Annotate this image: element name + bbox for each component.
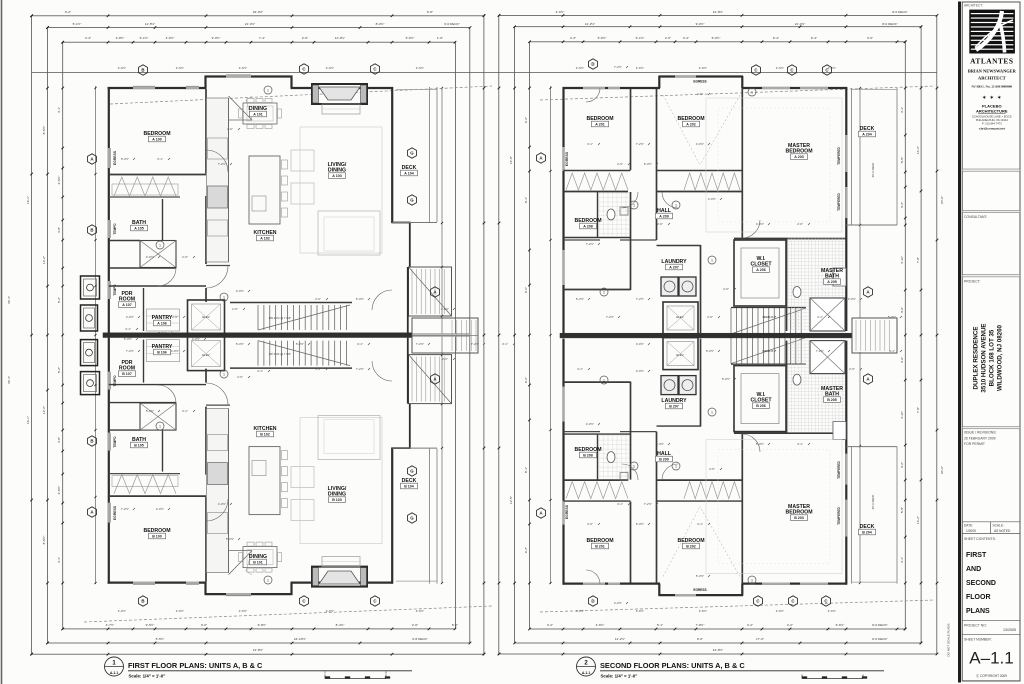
bath/pantry wall (109, 402, 176, 404)
p2 master bath tile (787, 238, 789, 330)
p2 exterior wall left (562, 87, 564, 333)
svg-text:B: B (90, 439, 93, 444)
svg-text:4'-1": 4'-1" (57, 107, 61, 113)
svg-text:TEMPERED: TEMPERED (837, 146, 841, 164)
stair corridor wall (230, 367, 352, 369)
svg-text:33'-4": 33'-4" (7, 376, 11, 384)
svg-text:3'-1": 3'-1" (697, 522, 703, 526)
svg-text:8'-5½": 8'-5½" (42, 536, 46, 545)
svg-text:26 FEBRUARY 2009: 26 FEBRUARY 2009 (964, 436, 996, 440)
svg-text:5'-1½": 5'-1½" (73, 22, 82, 26)
exterior wall right (391, 87, 393, 223)
party wall plan2 (560, 333, 852, 338)
svg-text:3'-1": 3'-1" (817, 315, 823, 319)
svg-text:3'-1": 3'-1" (577, 367, 583, 371)
svg-text:4'-7½": 4'-7½" (106, 623, 115, 627)
svg-text:A 202: A 202 (686, 123, 695, 127)
svg-text:2'-6": 2'-6" (237, 375, 243, 379)
kitchen counter (207, 98, 229, 262)
svg-text:SHEET NUMBER:: SHEET NUMBER: (964, 638, 992, 642)
svg-text:9'-2": 9'-2" (65, 10, 71, 14)
svg-text:CONSULTANT:: CONSULTANT: (964, 215, 987, 219)
svg-text:EGRESS: EGRESS (565, 151, 569, 166)
svg-text:TEMPD: TEMPD (113, 284, 117, 296)
title block border (958, 2, 961, 683)
p2 elevator (663, 338, 698, 370)
svg-text:5'-3½": 5'-3½" (696, 574, 704, 578)
svg-text:FIRST: FIRST (966, 552, 987, 559)
svg-text:11'-0½": 11'-0½" (335, 36, 345, 40)
plan2 dashed roof line bottom (540, 600, 935, 612)
svg-text:5'-3½": 5'-3½" (644, 162, 652, 166)
svg-text:5'-5½": 5'-5½" (156, 637, 165, 641)
svg-text:B 100: B 100 (152, 535, 162, 539)
svg-text:2'-6": 2'-6" (232, 307, 238, 311)
svg-text:AND: AND (966, 566, 981, 573)
svg-text:ELEV: ELEV (202, 353, 209, 357)
living rug (300, 418, 382, 544)
svg-text:2'-6": 2'-6" (412, 623, 418, 627)
p2 exterior wall right (845, 341, 847, 585)
svg-text:9'-0": 9'-0" (697, 637, 703, 641)
svg-text:4'-8": 4'-8" (57, 227, 61, 233)
svg-text:6'-8½": 6'-8½" (258, 623, 267, 627)
caption plan 2 (577, 657, 596, 676)
svg-text:3'-1": 3'-1" (763, 315, 769, 319)
exterior wall left (108, 87, 110, 333)
p2 windows left/right walls (562, 147, 564, 171)
svg-text:5'-6½": 5'-6½" (598, 36, 607, 40)
svg-text:4'-0½": 4'-0½" (171, 349, 179, 353)
svg-text:ATLANTES: ATLANTES (970, 57, 1013, 66)
svg-text:5'-6½": 5'-6½" (406, 36, 415, 40)
svg-text:6'-0 DECK": 6'-0 DECK" (444, 22, 460, 26)
svg-text:16'-1": 16'-1" (26, 416, 30, 424)
svg-text:FLOOR: FLOOR (966, 594, 991, 601)
svg-text:SCALE:: SCALE: (993, 524, 1004, 528)
grid bubbles plan1 (139, 65, 148, 75)
p2 wall jog up (658, 584, 660, 596)
svg-text:1: 1 (223, 372, 225, 376)
svg-text:Scale: 1/4" = 1'-0": Scale: 1/4" = 1'-0" (129, 674, 166, 679)
svg-text:5'-3½": 5'-3½" (124, 337, 132, 341)
svg-text:4'-6½": 4'-6½" (828, 609, 836, 613)
exterior stair (409, 355, 452, 404)
svg-text:3'-8½": 3'-8½" (116, 36, 125, 40)
svg-text:2'-6": 2'-6" (797, 222, 803, 226)
svg-text:B 209: B 209 (659, 458, 669, 462)
p2 windows left/right walls (562, 501, 564, 525)
svg-text:6'-4": 6'-4" (811, 36, 817, 40)
p2 closet walls (564, 170, 631, 172)
svg-text:5'-3½": 5'-3½" (356, 297, 364, 301)
svg-text:A 204: A 204 (862, 133, 871, 137)
svg-text:7'-2½": 7'-2½" (126, 349, 134, 353)
corner cabinet (229, 551, 253, 575)
closet shelf (112, 476, 178, 487)
svg-text:4'-6½": 4'-6½" (776, 609, 784, 613)
shared rear deck plan1 (412, 318, 478, 353)
p2 deck lines (851, 447, 853, 584)
svg-text:13/2005: 13/2005 (1003, 628, 1016, 632)
svg-text:PLANS: PLANS (966, 608, 990, 615)
stair corridor wall (230, 302, 352, 304)
closet shelf (112, 184, 178, 195)
p2 core walls (656, 89, 658, 240)
svg-text:A 203: A 203 (794, 155, 803, 159)
closet wall (109, 473, 180, 475)
svg-text:DO NOT SCALE PLANS: DO NOT SCALE PLANS (947, 624, 951, 657)
exterior wall top right part (291, 87, 394, 89)
svg-text:2'-0": 2'-0" (665, 36, 671, 40)
svg-text:WILDWOOD, NJ 08260: WILDWOOD, NJ 08260 (997, 324, 1004, 391)
living rug (300, 127, 382, 253)
svg-text:6'-8 DECK": 6'-8 DECK" (412, 637, 428, 641)
p2 deck lines (851, 88, 853, 225)
svg-text:6'-6½": 6'-6½" (836, 623, 845, 627)
svg-text:1: 1 (751, 578, 753, 582)
svg-text:7'-2½": 7'-2½" (606, 315, 614, 319)
p2 core walls (656, 432, 658, 583)
p2 wall jog up (658, 76, 660, 88)
svg-text:8'-0 DECK": 8'-0 DECK" (872, 637, 888, 641)
svg-text:TEMPD: TEMPD (113, 436, 117, 448)
svg-text:6'-4": 6'-4" (773, 36, 779, 40)
svg-text:9'-0½": 9'-0½" (212, 36, 221, 40)
svg-text:A-1.1: A-1.1 (582, 671, 590, 675)
svg-text:7'-2½": 7'-2½" (158, 331, 166, 335)
svg-text:A 106: A 106 (157, 322, 166, 326)
svg-text:B 103: B 103 (332, 498, 342, 502)
wall jog (290, 76, 292, 88)
scale bar plan2 (802, 678, 863, 680)
kitchen island (249, 156, 280, 224)
svg-text:EGRESS: EGRESS (113, 150, 117, 165)
svg-text:5'-1": 5'-1" (657, 623, 663, 627)
svg-text:9'-6½": 9'-6½" (146, 623, 155, 627)
svg-text:3'-0": 3'-0" (201, 623, 207, 627)
svg-text:B: B (141, 599, 144, 604)
kitchen island (249, 447, 280, 515)
svg-text:4'-0½": 4'-0½" (156, 507, 164, 511)
svg-text:3510 HUDSON AVENUE: 3510 HUDSON AVENUE (981, 323, 988, 392)
svg-text:4'-6½": 4'-6½" (326, 609, 334, 613)
svg-text:A 101: A 101 (253, 113, 262, 117)
svg-text:A 208: A 208 (583, 225, 592, 229)
svg-text:SECOND FLOOR PLANS: UNITS A, B: SECOND FLOOR PLANS: UNITS A, B & C (600, 661, 745, 670)
svg-text:B 207: B 207 (669, 405, 679, 409)
svg-text:DN 16 R @ 7 3/4": DN 16 R @ 7 3/4" (269, 316, 291, 320)
svg-text:TEMPERED: TEMPERED (837, 192, 841, 210)
svg-text:7'-4": 7'-4" (259, 36, 265, 40)
svg-text:4'-6½": 4'-6½" (576, 66, 584, 70)
right lower wall (407, 338, 409, 404)
elevator (188, 337, 225, 371)
svg-text:3'-1": 3'-1" (315, 367, 321, 371)
door arcs (206, 150, 228, 172)
svg-text:4'-6½": 4'-6½" (176, 609, 184, 613)
svg-text:12'-2": 12'-2" (42, 406, 46, 414)
exterior wall right (391, 448, 393, 584)
svg-text:Ⓒ COPYRIGHT 2009: Ⓒ COPYRIGHT 2009 (976, 673, 1007, 678)
svg-text:TEMPERED: TEMPERED (837, 460, 841, 478)
svg-text:2'-6": 2'-6" (617, 162, 623, 166)
svg-text:24'-10½": 24'-10½" (294, 637, 306, 641)
svg-text:B 202: B 202 (686, 545, 696, 549)
svg-text:5'-3½": 5'-3½" (146, 409, 154, 413)
svg-text:B 101: B 101 (253, 561, 263, 565)
p2 exterior wall left (562, 339, 564, 585)
plan2 dashed roof line top (540, 86, 935, 100)
p2 shower (810, 341, 845, 374)
armchairs (291, 500, 314, 521)
plan1 dimension frame outer (32, 16, 484, 654)
svg-text:BRIAN NEWSWANGER: BRIAN NEWSWANGER (968, 69, 1017, 74)
svg-text:2'-6": 2'-6" (315, 297, 321, 301)
svg-text:4'-2": 4'-2" (787, 623, 793, 627)
svg-text:20'-6": 20'-6" (940, 466, 944, 474)
svg-text:1: 1 (159, 424, 161, 428)
p2 master bedroom tray (706, 440, 842, 574)
wall jog (204, 583, 206, 595)
svg-text:7'-8": 7'-8" (916, 407, 920, 413)
svg-text:12'-2": 12'-2" (42, 256, 46, 264)
svg-text:2'-6": 2'-6" (697, 92, 703, 96)
svg-text:4'-0½": 4'-0½" (848, 297, 856, 301)
svg-text:5'-3½": 5'-3½" (636, 522, 644, 526)
caption plan 1 (105, 657, 124, 676)
date scale row (962, 521, 1020, 523)
svg-text:1: 1 (267, 578, 269, 582)
svg-text:1/2009: 1/2009 (966, 529, 976, 533)
svg-text:4'-0½": 4'-0½" (614, 601, 622, 605)
svg-text:4'-6½": 4'-6½" (776, 66, 784, 70)
p2 shower (810, 298, 845, 331)
svg-text:4'-0½": 4'-0½" (192, 337, 200, 341)
kitchen counter (207, 409, 229, 573)
svg-text:SCHOOLHOUSE LANE + EGGS: SCHOOLHOUSE LANE + EGGS (972, 115, 1012, 119)
svg-text:6'-2": 6'-2" (524, 117, 528, 123)
svg-text:21'-4½": 21'-4½" (245, 22, 255, 26)
svg-text:21'-4½": 21'-4½" (795, 22, 805, 26)
svg-text:4'-0½": 4'-0½" (441, 307, 449, 311)
pantry wall (143, 288, 145, 331)
svg-text:2'-6": 2'-6" (587, 522, 593, 526)
svg-text:3'-1": 3'-1" (357, 342, 363, 346)
svg-text:5'-0": 5'-0" (452, 623, 458, 627)
svg-text:4'-6½": 4'-6½" (576, 609, 584, 613)
svg-text:1: 1 (675, 464, 677, 468)
svg-text:DUPLEX RESIDENCE: DUPLEX RESIDENCE (973, 327, 980, 390)
svg-text:B 102: B 102 (260, 433, 270, 437)
svg-text:TEMPD: TEMPD (113, 223, 117, 235)
p2 exterior wall right (845, 87, 847, 331)
atlantes logo (969, 10, 1015, 54)
p2 exterior top wall left part (563, 87, 661, 89)
svg-text:2'-6": 2'-6" (849, 367, 855, 371)
svg-text:A 205: A 205 (827, 280, 836, 284)
svg-text:4'-0½": 4'-0½" (696, 142, 704, 146)
svg-text:5'-3½": 5'-3½" (226, 537, 234, 541)
svg-text:B 205: B 205 (827, 398, 837, 402)
svg-text:14'-2": 14'-2" (916, 516, 920, 524)
kitchen hall wall (206, 404, 230, 406)
svg-text:3'-1": 3'-1" (125, 327, 131, 331)
inner dim line plan1 left (95, 86, 97, 584)
svg-text:AS NOTED: AS NOTED (994, 529, 1011, 533)
svg-text:8'-0 DECK": 8'-0 DECK" (872, 623, 888, 627)
exterior stair (409, 267, 452, 316)
svg-text:20'-6 DECK: 20'-6 DECK (871, 163, 875, 178)
svg-text:12'-5": 12'-5" (509, 496, 513, 504)
p2 door arcs (622, 192, 638, 208)
divider empty section (962, 169, 1020, 171)
svg-text:3'-2": 3'-2" (900, 462, 904, 468)
project section (962, 275, 1020, 277)
interior wall kitchen/bedroom (205, 89, 207, 174)
svg-text:B 206: B 206 (756, 404, 766, 408)
p2 laundry (700, 339, 702, 427)
p2 exterior top wall right part (742, 87, 848, 89)
svg-text:5'-3½": 5'-3½" (706, 349, 714, 353)
outdoor shower boxes (81, 276, 100, 299)
p2 hall lower walls (564, 239, 601, 241)
svg-text:2'-6": 2'-6" (709, 467, 715, 471)
svg-text:4'-3": 4'-3" (570, 36, 576, 40)
plan1 dimension frame middle (48, 28, 470, 644)
svg-text:EGRESS: EGRESS (113, 505, 117, 520)
svg-text:5'-3½": 5'-3½" (656, 442, 664, 446)
svg-text:4'-6½": 4'-6½" (239, 609, 247, 613)
svg-text:7'-2½": 7'-2½" (762, 349, 770, 353)
wall jog (290, 583, 292, 595)
p2 master bath tile (787, 341, 789, 433)
svg-text:4'-0½": 4'-0½" (218, 502, 226, 506)
svg-text:3'-1": 3'-1" (157, 157, 163, 161)
svg-text:4'-0½": 4'-0½" (146, 255, 154, 259)
svg-text:TEMPD: TEMPD (113, 375, 117, 387)
svg-text:7'-2½": 7'-2½" (218, 162, 226, 166)
svg-text:1: 1 (675, 203, 677, 207)
p2 laundry (700, 245, 702, 333)
svg-text:SHEET CONTENTS:: SHEET CONTENTS: (964, 537, 996, 541)
svg-text:4'-6½": 4'-6½" (239, 66, 247, 70)
svg-text:ARCHITECTURE: ARCHITECTURE (976, 109, 1008, 114)
svg-text:EGRESS: EGRESS (693, 588, 706, 592)
svg-text:4'-6½": 4'-6½" (596, 623, 605, 627)
svg-text:4'-0½": 4'-0½" (586, 422, 594, 426)
svg-text:ARCHITECT: ARCHITECT (978, 76, 1006, 81)
svg-text:8'-0½": 8'-0½" (376, 22, 385, 26)
corner cabinet (229, 96, 253, 120)
svg-text:7'-2½": 7'-2½" (356, 367, 364, 371)
svg-text:3'-1": 3'-1" (502, 342, 508, 346)
svg-text:FOR PERMIT: FOR PERMIT (964, 442, 985, 446)
svg-text:4'-0½": 4'-0½" (236, 289, 244, 293)
svg-text:7'-2½": 7'-2½" (121, 507, 129, 511)
svg-text:4'-6½": 4'-6½" (416, 66, 424, 70)
p2 exterior top wall left part (563, 582, 661, 584)
p2 interior wall between bedrooms (630, 502, 632, 583)
svg-text:4'-6½": 4'-6½" (166, 36, 175, 40)
svg-text:3'-6": 3'-6" (900, 357, 904, 363)
exterior wall top main (108, 581, 207, 583)
svg-text:1: 1 (223, 295, 225, 299)
p2 bedroom202 roof dash (663, 507, 700, 577)
svg-text:A 209: A 209 (659, 215, 668, 219)
svg-text:2'-6": 2'-6" (227, 127, 233, 131)
svg-text:17'-6": 17'-6" (756, 637, 764, 641)
inner dim line plan1 right (441, 88, 443, 583)
svg-text:4'-0½": 4'-0½" (636, 369, 644, 373)
p2 master bedroom tray (706, 98, 842, 232)
dimension ticks plan1 (30, 15, 33, 18)
svg-text:B 204: B 204 (862, 531, 872, 535)
deck edge lines (429, 449, 431, 584)
p2 exterior top wall right part (742, 582, 848, 584)
p2 bedroom202 roof dash (663, 95, 700, 165)
svg-text:5'-2": 5'-2" (57, 297, 61, 303)
wall jog (204, 76, 206, 88)
consultant section (962, 210, 1020, 212)
svg-text:4'-0½": 4'-0½" (636, 342, 644, 346)
armchairs (291, 150, 314, 171)
svg-text:B 208: B 208 (583, 454, 593, 458)
svg-text:12'-5": 12'-5" (509, 156, 513, 164)
svg-text:4'-1": 4'-1" (900, 557, 904, 563)
bedroom south wall (109, 174, 206, 176)
svg-text:B 104: B 104 (404, 485, 414, 489)
svg-text:4'-4": 4'-4" (747, 623, 753, 627)
svg-text:4'-6½": 4'-6½" (118, 609, 126, 613)
p2 bed208/bath walls (597, 192, 599, 237)
svg-text:8'-1": 8'-1" (524, 467, 528, 473)
svg-text:4'-0½": 4'-0½" (126, 315, 134, 319)
svg-text:ELEV: ELEV (676, 353, 683, 357)
svg-text:6'-1½": 6'-1½" (636, 36, 645, 40)
svg-text:4'-10": 4'-10" (900, 256, 904, 264)
party wall plan1 (103, 333, 412, 338)
svg-text:4'-0½": 4'-0½" (756, 222, 764, 226)
svg-text:PHILADELPHIA, PA 19144: PHILADELPHIA, PA 19144 (976, 118, 1009, 122)
svg-text:A 201: A 201 (595, 123, 604, 127)
svg-text:11'-5½": 11'-5½" (145, 22, 155, 26)
svg-text:A 206: A 206 (756, 268, 765, 272)
svg-text:4'-6½": 4'-6½" (118, 66, 126, 70)
svg-text:D: D (591, 62, 594, 67)
svg-text:3'-1": 3'-1" (617, 502, 623, 506)
svg-text:1: 1 (267, 88, 269, 92)
svg-text:8'-1": 8'-1" (524, 197, 528, 203)
p2 WI closet (734, 366, 786, 432)
svg-text:3'-1": 3'-1" (182, 409, 188, 413)
project no (962, 620, 1020, 622)
svg-text:TEMPERED: TEMPERED (837, 506, 841, 524)
p2 stairs (730, 338, 732, 364)
svg-text:2'-6": 2'-6" (707, 315, 713, 319)
svg-text:1: 1 (159, 243, 161, 247)
svg-text:5'-3½": 5'-3½" (756, 442, 764, 446)
svg-text:7'-8½": 7'-8½" (696, 623, 705, 627)
exterior wall top upper (205, 75, 293, 77)
svg-text:6'-8": 6'-8" (427, 10, 433, 14)
svg-text:r.bri@comcast.net: r.bri@comcast.net (979, 127, 1005, 131)
p2 WI closet (734, 240, 786, 306)
svg-text:8'-0 DECK": 8'-0 DECK" (892, 10, 908, 14)
sofa (318, 416, 380, 460)
svg-text:A 107: A 107 (122, 303, 131, 307)
p2 hall lower walls (564, 431, 601, 433)
